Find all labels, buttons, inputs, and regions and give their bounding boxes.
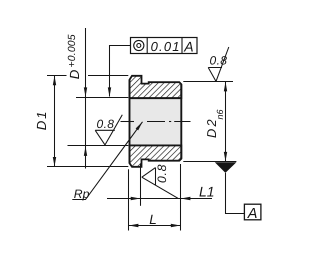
bore top extension line bbox=[76, 97, 128, 99]
feature control frame box bbox=[131, 38, 198, 54]
svg-text:0.01: 0.01 bbox=[151, 39, 181, 54]
centerline dash 1 bbox=[121, 121, 135, 123]
bore top edge bbox=[130, 97, 182, 99]
bore bottom edge bbox=[130, 144, 182, 146]
svg-text:D: D bbox=[67, 69, 82, 79]
datum A box bbox=[244, 204, 261, 220]
D2 dimension line bbox=[225, 82, 227, 161]
D1 arrow down bbox=[53, 157, 56, 167]
L1 left extension line bbox=[140, 164, 142, 206]
D arrow up (to bore bottom) bbox=[84, 146, 87, 156]
body bottom extension (right) bbox=[183, 161, 236, 163]
concentricity frame leader bbox=[110, 46, 131, 97]
surface finish 0.8 (OD, top right) bbox=[208, 47, 229, 81]
D2 arrow down bbox=[224, 152, 227, 162]
D1 bottom extension line bbox=[47, 166, 128, 168]
D1 top extension line bbox=[47, 75, 67, 77]
svg-text:n6: n6 bbox=[215, 109, 225, 119]
svg-text:0.8: 0.8 bbox=[97, 117, 115, 131]
centerline dot bbox=[169, 121, 171, 123]
L/L1 right extension line bbox=[180, 164, 182, 231]
L1 arrow left bbox=[181, 197, 191, 200]
centerline dash 2 bbox=[147, 121, 165, 123]
D1 dimension line bbox=[54, 76, 56, 167]
centerline dash 3 bbox=[174, 121, 190, 123]
surface finish 0.8 (flange face, bottom, rotated) bbox=[142, 168, 178, 199]
datum A triangle (filled) bbox=[215, 162, 237, 173]
surface finish 0.8 (bore, left) bbox=[95, 115, 122, 145]
bore bottom extension line bbox=[68, 145, 129, 147]
L left extension line bbox=[128, 169, 130, 230]
svg-text:0.8: 0.8 bbox=[155, 164, 169, 183]
svg-text:L: L bbox=[149, 212, 157, 227]
L arrow left bbox=[129, 224, 139, 227]
D1 arrow up bbox=[53, 76, 56, 86]
svg-text:L1: L1 bbox=[199, 184, 215, 200]
svg-text:+0.005: +0.005 bbox=[67, 34, 78, 67]
L dimension line bbox=[129, 225, 180, 227]
svg-text:D1: D1 bbox=[34, 110, 49, 130]
bushing flange+body upper hatched section bbox=[130, 76, 182, 98]
leader arrow down bbox=[108, 87, 111, 97]
concentricity symbol bbox=[134, 40, 144, 50]
L arrow right bbox=[171, 224, 181, 227]
D2 arrow up bbox=[224, 82, 227, 92]
D dimension line bbox=[85, 28, 87, 169]
body right face edge bbox=[180, 84, 182, 159]
body top extension (right) bbox=[183, 81, 233, 83]
datum leader to A box bbox=[226, 173, 245, 214]
L1 dimension line bbox=[107, 198, 212, 200]
svg-text:A: A bbox=[183, 39, 193, 55]
bore D (grey) bbox=[130, 98, 182, 145]
bushing flange+body lower hatched section bbox=[130, 145, 182, 166]
svg-text:Rp: Rp bbox=[74, 187, 90, 201]
svg-text:A: A bbox=[247, 206, 258, 222]
flange left face edge bbox=[129, 80, 131, 163]
D arrow down (to bore top) bbox=[84, 87, 87, 97]
L1 arrow right bbox=[131, 197, 141, 200]
svg-text:0.8: 0.8 bbox=[210, 54, 228, 68]
